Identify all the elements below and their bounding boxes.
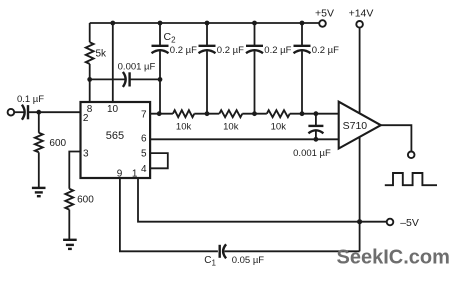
svg-text:2: 2 (83, 113, 89, 124)
node pin7 junction (157, 111, 162, 116)
svg-text:10k: 10k (271, 121, 287, 132)
wire +14V to comparator V+ (359, 28, 361, 113)
svg-text:0.2 µF: 0.2 µF (264, 45, 291, 56)
node input junction (36, 110, 41, 115)
node rail/C2d junction (300, 21, 305, 26)
svg-text:0.001 µF: 0.001 µF (118, 62, 156, 73)
ground #1 (32, 188, 46, 196)
svg-text:0.05 µF: 0.05 µF (232, 255, 265, 266)
svg-text:5: 5 (141, 149, 147, 160)
svg-text:0.2 µF: 0.2 µF (217, 45, 244, 56)
capacitor 0.001uF (comparator input) (293, 114, 331, 159)
wire +5V top rail (90, 22, 320, 24)
svg-text:565: 565 (106, 130, 124, 142)
svg-text:C2: C2 (164, 31, 177, 45)
svg-text:+5V: +5V (315, 8, 334, 20)
svg-text:S710: S710 (343, 120, 368, 132)
capacitor C2 0.2uF #4 (294, 23, 340, 114)
svg-text:6: 6 (141, 133, 147, 144)
wire pin7 / 10k chain (150, 113, 173, 115)
node rail/C2b junction (205, 21, 210, 26)
resistor 10k #3 (267, 110, 290, 132)
svg-text:0.1 µF: 0.1 µF (17, 94, 44, 105)
svg-text:0.2 µF: 0.2 µF (170, 45, 197, 56)
svg-text:600: 600 (77, 195, 94, 206)
svg-text:0.2 µF: 0.2 µF (312, 45, 339, 56)
wire pin6 to comparator -input (150, 138, 339, 140)
wire pin5-pin4 loop (150, 153, 168, 168)
wire input to cap (14, 111, 24, 113)
terminal -5V (387, 217, 419, 229)
terminal input (8, 109, 15, 116)
capacitor C2 0.2uF #2 (199, 23, 245, 114)
wire to pin 10 (112, 23, 114, 102)
svg-text:600: 600 (49, 138, 66, 149)
svg-text:10k: 10k (176, 121, 192, 132)
node rail/C2a junction (158, 21, 163, 26)
node 10k-1/2 junction (205, 111, 210, 116)
wire -5V node down to C1 line (359, 222, 361, 252)
op-amp U1 565 PLL (81, 102, 151, 178)
square wave output symbol (385, 173, 437, 185)
wire to pin 8 (89, 79, 91, 102)
resistor 5k (86, 23, 107, 79)
svg-text:SeekIC.com: SeekIC.com (337, 247, 450, 269)
node 10k-2/3 junction (252, 111, 257, 116)
wire pin 9 down (120, 178, 218, 251)
svg-text:1: 1 (132, 169, 138, 180)
node rail/pin10 junction (110, 21, 115, 26)
node -5V junction (357, 219, 362, 224)
capacitor C2 0.2uF #3 (246, 23, 292, 114)
wire output (381, 125, 412, 151)
svg-text:7: 7 (141, 109, 147, 120)
terminal output (408, 152, 415, 159)
node pin6/cap junction (314, 137, 319, 142)
wire comparator V- to -5V (359, 137, 361, 221)
wire C1 to -5V node (225, 250, 360, 252)
node 5k/0.001uF junction (87, 77, 92, 82)
capacitor C1 0.05uF (204, 244, 264, 267)
ground #2 (63, 240, 77, 249)
resistor 10k #1 (173, 110, 194, 132)
svg-text:5k: 5k (96, 49, 108, 60)
svg-text:4: 4 (141, 164, 147, 175)
svg-text:0.001 µF: 0.001 µF (293, 148, 331, 159)
resistor 600 #2 (65, 189, 94, 239)
capacitor 0.001uF (pin8-pin7) (90, 62, 160, 87)
svg-text:10: 10 (107, 104, 119, 115)
svg-text:+14V: +14V (349, 8, 374, 20)
svg-text:C1: C1 (204, 255, 216, 268)
svg-text:10k: 10k (223, 121, 239, 132)
terminal +14V (349, 8, 374, 28)
wire cap to pin 2 (28, 111, 81, 113)
svg-text:–5V: –5V (400, 217, 419, 229)
wire pin 3 (69, 152, 80, 189)
node comparator +in junction (314, 111, 319, 116)
node rail/C2c junction (252, 21, 257, 26)
node C2a/0.001uF junction (158, 77, 163, 82)
capacitor 0.1uF input (17, 94, 44, 120)
resistor 10k #2 (219, 110, 242, 132)
node 10k-3 end junction (300, 111, 305, 116)
svg-text:3: 3 (83, 149, 89, 160)
op-amp U2 S710 comparator (339, 102, 381, 149)
wire pin 1 to -5V rail (138, 178, 387, 222)
capacitor C2 0.2uF #1 (152, 23, 198, 114)
resistor 600 #1 (35, 112, 67, 187)
terminal +5V (315, 8, 334, 27)
